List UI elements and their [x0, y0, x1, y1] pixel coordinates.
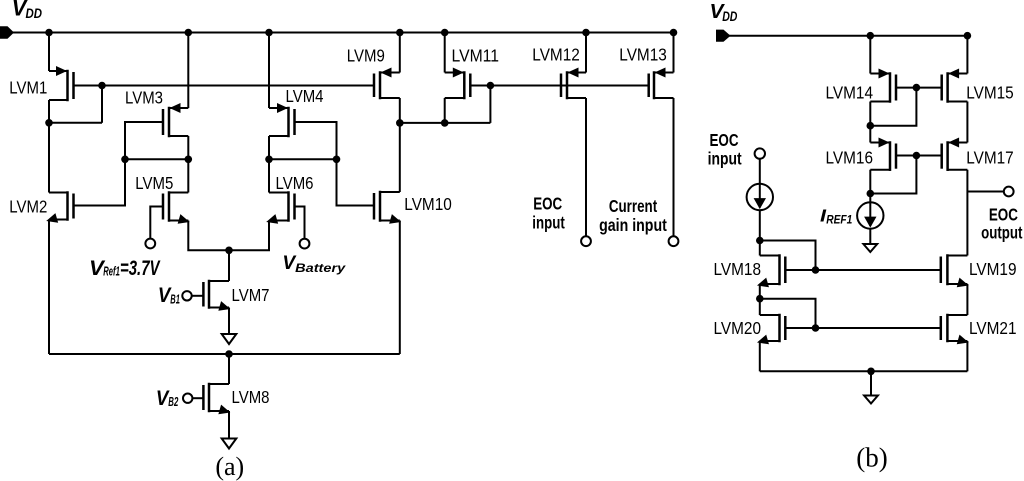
- wire LVM18-LVM19 gate line: [785, 269, 941, 271]
- label LVM21: [969, 318, 1017, 338]
- wire LVM2 drain to LVM1 drain: [48, 123, 50, 193]
- label LVM2: [9, 197, 47, 217]
- transistor LVM5: [163, 193, 190, 224]
- wire LVM16-LVM17 gates: [896, 155, 942, 157]
- transistor LVM6: [266, 193, 294, 224]
- label LVM18: [714, 259, 762, 279]
- junction LVM14 gate node: [913, 84, 921, 92]
- svg-text:gain input: gain input: [599, 215, 667, 235]
- power VDD input tag (a): [0, 26, 14, 38]
- transistor LVM15: [942, 69, 968, 102]
- transistor LVM17: [942, 138, 968, 170]
- svg-text:LVM7: LVM7: [232, 285, 270, 305]
- wire LVM5 gate to VRef1 terminal: [150, 207, 163, 239]
- junction EOC input node: [756, 237, 764, 245]
- wire LVM11 gate bus to LVM13: [470, 85, 648, 87]
- label LVM16: [826, 148, 874, 168]
- label (b): [856, 443, 887, 473]
- label LVM8: [232, 387, 270, 407]
- wire LVM1 source to VDD: [48, 33, 50, 72]
- junction VDD-LVM3: [185, 29, 193, 37]
- svg-text:Battery: Battery: [295, 263, 346, 275]
- wire tail node to LVM7 drain: [228, 250, 230, 281]
- wire LVM14 gate-drain link: [870, 88, 916, 126]
- transistor LVM14: [870, 69, 896, 102]
- transistor LVM18: [757, 256, 785, 288]
- wire LVM20 drain stem: [759, 299, 761, 315]
- label LVM19: [969, 259, 1017, 279]
- wire EOC input node to LVM18 gate: [760, 241, 816, 271]
- wire IREF1 to ground: [869, 229, 871, 244]
- wire LVM7 source to ground: [228, 308, 230, 335]
- wire node A: [400, 122, 491, 124]
- wire LVM15 drain to LVM17 source: [966, 102, 968, 143]
- wire LVM9 drain stem: [399, 98, 401, 123]
- wire LVM1 drain stem: [48, 100, 50, 123]
- svg-text:B2: B2: [168, 395, 178, 409]
- wire LVM19 source to LVM21 drain: [966, 284, 968, 315]
- wire EOC output branch: [967, 191, 1004, 193]
- transistor LVM1: [49, 66, 74, 100]
- svg-text:DD: DD: [722, 9, 737, 24]
- svg-text:LVM17: LVM17: [966, 148, 1014, 168]
- label LVM14: [826, 83, 874, 103]
- terminal VB2: [183, 394, 192, 403]
- wire LVM9 source to VDD: [399, 33, 401, 73]
- svg-text:LVM11: LVM11: [452, 45, 500, 65]
- terminal EOC input (a): [581, 236, 591, 246]
- transistor LVM4: [269, 103, 295, 136]
- wire LVM14-LVM15 gates: [896, 87, 942, 89]
- wire LVM5 drain to node B: [187, 159, 189, 192]
- current source IREF1: [857, 202, 883, 228]
- svg-text:REF1: REF1: [826, 215, 852, 227]
- ground LVM7: [222, 334, 237, 344]
- label LVM11: [452, 45, 500, 65]
- label LVM7: [232, 285, 270, 305]
- transistor LVM16: [870, 138, 896, 170]
- junction LVM16 drain node: [867, 190, 875, 198]
- svg-text:Current: Current: [609, 196, 657, 216]
- junction LVM1 drain / LVM2 drain: [45, 119, 53, 127]
- terminal VRef1: [145, 239, 155, 249]
- transistor LVM11: [445, 68, 471, 99]
- svg-text:LVM15: LVM15: [966, 83, 1014, 103]
- transistor LVM8: [203, 384, 230, 414]
- wire LVM20 source to ground rail: [759, 341, 761, 371]
- junction VDD-LVM14: [867, 32, 875, 40]
- label LVM4: [286, 86, 324, 106]
- wire LVM21 source to ground rail: [966, 341, 968, 371]
- wire VDD rail (a): [10, 32, 674, 34]
- wire LVM6 drain to LVM4 drain: [268, 159, 270, 192]
- wire ground rail (a): [49, 353, 400, 355]
- terminal Current gain input: [669, 236, 679, 246]
- wire LVM6 source to tail node: [229, 221, 269, 251]
- wire LVM2 source to ground rail: [48, 220, 50, 355]
- junction LVM4 gate node: [333, 156, 341, 164]
- junction LVM14 drain / LVM16 source: [867, 122, 875, 130]
- wire LVM11 gate-drain link: [489, 86, 491, 123]
- junction node B right: [185, 156, 193, 164]
- label VB1: [158, 283, 180, 307]
- wire LVM2 gate to node B: [74, 159, 126, 205]
- wire LVM11 source to VDD: [444, 33, 446, 73]
- junction LVM18 gate node: [812, 266, 820, 274]
- wire LVM20-LVM21 gate line: [785, 327, 941, 329]
- junction VDD-LVM13: [670, 29, 678, 37]
- svg-text:EOC: EOC: [709, 130, 738, 150]
- wire LVM16 drain to IREF1: [869, 170, 871, 203]
- wire LVM12 source to VDD: [585, 33, 587, 73]
- transistor LVM13: [649, 68, 674, 99]
- wire EOC input terminal to current source: [759, 159, 761, 184]
- wire LVM18 source node to LVM20 gate: [760, 299, 816, 328]
- label LVM5: [135, 173, 173, 193]
- transistor LVM2: [46, 193, 73, 223]
- label Current gain input: [599, 196, 667, 235]
- transistor LVM3: [163, 103, 188, 136]
- junction VDD-LVM9: [396, 29, 404, 37]
- wire LVM1 gate bus to LVM9 gate: [74, 85, 375, 87]
- transistor LVM12: [561, 68, 586, 99]
- wire LVM6 gate to VBattery terminal: [295, 207, 305, 239]
- junction ground rail - LVM8: [225, 350, 233, 358]
- ground IREF1: [863, 244, 877, 252]
- transistor LVM10: [374, 192, 401, 224]
- label LVM6: [276, 173, 314, 193]
- junction VDD-LVM4: [265, 29, 273, 37]
- terminal EOC input (b): [755, 148, 765, 158]
- svg-text:LVM1: LVM1: [9, 77, 47, 97]
- terminal VBattery: [300, 239, 310, 249]
- wire LVM3 gate to node B: [125, 122, 163, 159]
- wire LVM11 drain stem: [444, 98, 446, 123]
- label EOC output: [981, 205, 1023, 243]
- svg-text:B1: B1: [170, 292, 180, 306]
- svg-text:input: input: [708, 149, 742, 169]
- label (a): [215, 452, 244, 481]
- label EOC input (a): [532, 194, 565, 233]
- svg-text:DD: DD: [26, 5, 43, 21]
- svg-text:LVM20: LVM20: [714, 318, 762, 338]
- label LVM17: [966, 148, 1014, 168]
- transistor LVM19: [941, 256, 969, 288]
- svg-text:output: output: [981, 223, 1023, 243]
- svg-text:LVM14: LVM14: [826, 83, 874, 103]
- junction node A mid: [441, 119, 449, 127]
- svg-text:LVM19: LVM19: [969, 259, 1017, 279]
- wire LVM13 source to VDD: [673, 33, 675, 73]
- label VB2: [156, 386, 178, 410]
- transistor LVM20: [757, 315, 785, 344]
- terminal EOC output: [1004, 187, 1014, 197]
- junction LVM11 gate node: [487, 82, 495, 90]
- label LVM3: [125, 88, 163, 108]
- wire VDD rail (b): [727, 35, 967, 37]
- junction LVM18 source / LVM20 drain: [756, 295, 764, 303]
- junction LVM16 gate node: [913, 152, 921, 160]
- junction node A left: [396, 119, 404, 127]
- svg-text:LVM4: LVM4: [286, 86, 324, 106]
- ground rail (b) symbol: [864, 396, 878, 404]
- svg-text:LVM10: LVM10: [404, 194, 452, 214]
- junction ground rail (b): [867, 368, 875, 376]
- junction LVM4 drain / LVM6 drain: [265, 156, 273, 164]
- label VDD (a): [12, 0, 42, 21]
- svg-text:LVM3: LVM3: [125, 88, 163, 108]
- label LVM9: [347, 45, 385, 65]
- svg-text:LVM2: LVM2: [9, 197, 47, 217]
- wire LVM8 source to ground: [228, 411, 230, 439]
- transistor LVM7: [203, 281, 230, 311]
- svg-text:(b): (b): [856, 443, 887, 473]
- junction VDD-LVM15: [964, 32, 972, 40]
- wire LVM14 source to VDD: [869, 36, 871, 74]
- svg-text:LVM16: LVM16: [826, 148, 874, 168]
- terminal VB1: [182, 291, 191, 300]
- power VDD input tag (b): [716, 30, 731, 42]
- svg-text:input: input: [532, 213, 565, 233]
- wire LVM3 source to VDD: [187, 33, 189, 109]
- junction LVM1 gate node: [98, 82, 106, 90]
- label VDD (b): [710, 0, 738, 24]
- junction LVM20 gate node: [812, 324, 820, 332]
- svg-text:LVM5: LVM5: [135, 173, 173, 193]
- wire LVM14 drain stem: [869, 102, 871, 126]
- label LVM15: [966, 83, 1014, 103]
- wire LVM8 drain to rail: [228, 354, 230, 384]
- wire LVM4 gate to LVM10 gate: [295, 122, 375, 206]
- wire LVM12 drain to EOC input terminal: [585, 98, 587, 236]
- label EOC input (b): [708, 130, 742, 169]
- junction node B left: [121, 156, 129, 164]
- current source EOC input: [747, 184, 773, 210]
- wire current source to LVM18 drain: [759, 210, 761, 255]
- svg-text:LVM21: LVM21: [969, 318, 1017, 338]
- wire LVM16 gate-drain link: [870, 156, 916, 194]
- wire LVM18 source stem: [759, 284, 761, 299]
- label LVM13: [619, 44, 667, 64]
- wire ground stem (b): [870, 371, 872, 395]
- label IREF1: [820, 205, 852, 226]
- wire LVM4 drain stem: [268, 136, 270, 159]
- wire LVM3 drain stem: [187, 136, 189, 159]
- wire LVM16 source stem: [869, 126, 871, 143]
- svg-text:LVM9: LVM9: [347, 45, 385, 65]
- wire node B: [125, 158, 188, 160]
- label LVM10: [404, 194, 452, 214]
- wire LVM7 gate lead: [192, 295, 204, 297]
- svg-text:LVM8: LVM8: [232, 387, 270, 407]
- wire LVM10 drain to node A: [399, 123, 401, 192]
- wire LVM15 source to VDD: [966, 36, 968, 74]
- svg-text:LVM18: LVM18: [714, 259, 762, 279]
- junction tail node: [225, 247, 233, 255]
- label LVM1: [9, 77, 47, 97]
- svg-text:LVM6: LVM6: [276, 173, 314, 193]
- label LVM20: [714, 318, 762, 338]
- wire LVM4 drain node: [269, 158, 337, 160]
- transistor LVM9: [374, 68, 400, 99]
- wire LVM17 drain to LVM19 drain: [966, 170, 968, 256]
- svg-text:(a): (a): [215, 452, 244, 481]
- junction VDD-LVM12: [582, 29, 590, 37]
- svg-text:LVM13: LVM13: [619, 44, 667, 64]
- wire LVM8 gate lead: [192, 397, 203, 399]
- svg-text:EOC: EOC: [533, 194, 562, 214]
- wire LVM10 source to ground rail: [399, 221, 401, 355]
- label LVM12: [532, 44, 580, 64]
- junction VDD-LVM1: [45, 29, 53, 37]
- svg-text:LVM12: LVM12: [532, 44, 580, 64]
- wire ground rail (b): [760, 370, 968, 372]
- label VRef1=3.7V: [89, 256, 161, 280]
- wire LVM1 drain node: [49, 122, 102, 124]
- label VBattery: [282, 253, 346, 275]
- ground LVM8: [222, 439, 237, 449]
- wire LVM1 gate-drain diode link: [101, 86, 103, 123]
- svg-text:Ref1: Ref1: [103, 265, 120, 279]
- transistor LVM21: [941, 315, 969, 344]
- svg-text:=3.7V: =3.7V: [120, 257, 161, 280]
- junction VDD-LVM11: [441, 29, 449, 37]
- wire LVM4 source to VDD: [268, 33, 270, 109]
- wire LVM5 source to tail node: [188, 221, 229, 251]
- wire LVM13 drain to current gain input terminal: [673, 98, 675, 236]
